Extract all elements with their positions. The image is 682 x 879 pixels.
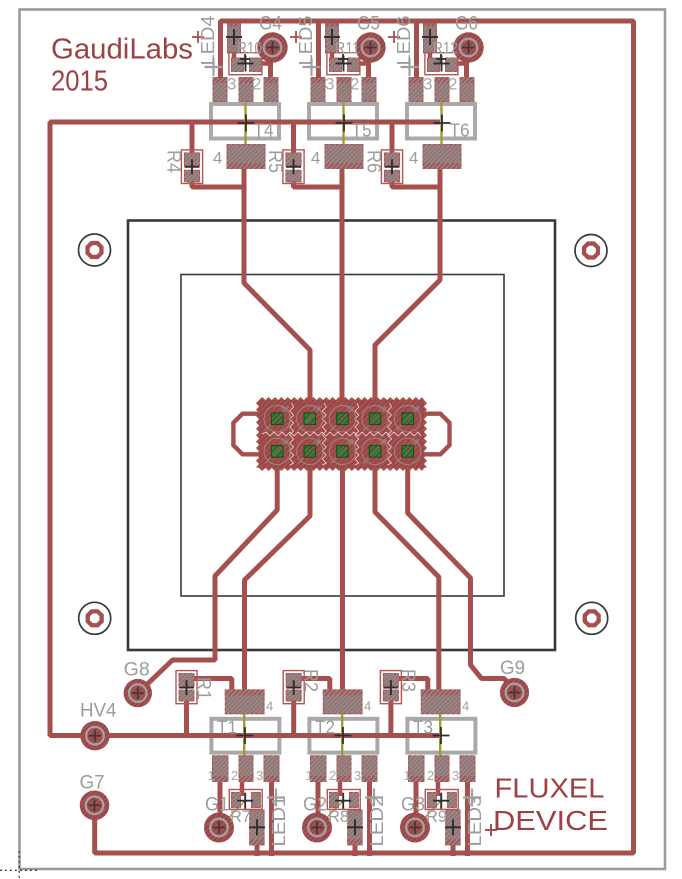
svg-text:T2: T2 <box>315 717 335 738</box>
svg-text:34: 34 <box>313 406 321 413</box>
svg-text:R7: R7 <box>230 807 251 826</box>
svg-text:4: 4 <box>462 699 469 714</box>
svg-text:R12: R12 <box>433 39 458 58</box>
svg-text:LED5: LED5 <box>296 16 316 66</box>
svg-text:3: 3 <box>256 768 263 783</box>
svg-text:GaudiLabs: GaudiLabs <box>51 34 193 66</box>
svg-text:G7: G7 <box>80 773 105 794</box>
svg-text:R11: R11 <box>335 39 360 58</box>
svg-text:34: 34 <box>378 406 386 413</box>
svg-text:G2: G2 <box>303 795 327 816</box>
svg-text:4: 4 <box>213 149 222 168</box>
svg-text:34: 34 <box>280 438 288 445</box>
svg-text:R4: R4 <box>163 150 184 173</box>
svg-text:HV4: HV4 <box>80 701 117 722</box>
svg-text:T5: T5 <box>352 120 372 141</box>
svg-text:T1: T1 <box>217 717 237 738</box>
svg-text:G6: G6 <box>455 14 478 35</box>
svg-text:R6: R6 <box>363 150 384 173</box>
svg-text:34: 34 <box>411 406 419 413</box>
svg-text:T3: T3 <box>413 717 433 738</box>
svg-text:R9: R9 <box>426 807 447 826</box>
svg-text:4: 4 <box>311 149 320 168</box>
svg-text:G4: G4 <box>259 14 282 35</box>
svg-text:2: 2 <box>427 768 434 783</box>
svg-text:G5: G5 <box>357 14 380 35</box>
svg-text:4: 4 <box>364 699 371 714</box>
svg-text:LED4: LED4 <box>198 16 218 66</box>
svg-text:LED2: LED2 <box>367 796 387 847</box>
svg-text:LED6: LED6 <box>394 16 414 66</box>
svg-text:R2: R2 <box>300 669 321 692</box>
svg-text:R1: R1 <box>193 677 214 700</box>
svg-text:G1: G1 <box>205 795 229 816</box>
svg-text:34: 34 <box>313 438 321 445</box>
svg-text:G8: G8 <box>124 660 150 681</box>
svg-text:T6: T6 <box>450 120 470 141</box>
svg-text:R5: R5 <box>264 150 285 173</box>
svg-text:4: 4 <box>266 699 273 714</box>
svg-text:R8: R8 <box>328 807 349 826</box>
svg-text:1: 1 <box>208 768 215 783</box>
svg-text:2: 2 <box>252 75 261 94</box>
svg-text:3: 3 <box>354 768 361 783</box>
svg-text:LED1: LED1 <box>269 796 289 847</box>
svg-text:3: 3 <box>423 75 432 94</box>
svg-text:2: 2 <box>350 75 359 94</box>
svg-text:3: 3 <box>325 75 334 94</box>
svg-text:2: 2 <box>329 768 336 783</box>
svg-text:G3: G3 <box>401 795 425 816</box>
svg-text:FLUXEL: FLUXEL <box>495 773 605 804</box>
svg-text:LED3: LED3 <box>465 796 485 847</box>
svg-text:4: 4 <box>409 149 418 168</box>
svg-text:34: 34 <box>411 438 419 445</box>
svg-text:34: 34 <box>378 438 386 445</box>
svg-text:R3: R3 <box>397 669 418 692</box>
svg-text:2015: 2015 <box>51 66 108 98</box>
svg-text:34: 34 <box>280 406 288 413</box>
svg-text:2: 2 <box>231 768 238 783</box>
svg-text:3: 3 <box>452 768 459 783</box>
svg-text:G9: G9 <box>500 658 525 679</box>
svg-text:34: 34 <box>345 406 353 413</box>
svg-text:1: 1 <box>306 768 313 783</box>
svg-text:DEVICE: DEVICE <box>493 805 608 836</box>
svg-text:3: 3 <box>227 75 236 94</box>
svg-text:R10: R10 <box>237 39 262 58</box>
svg-text:1: 1 <box>404 768 411 783</box>
svg-text:2: 2 <box>448 75 457 94</box>
svg-text:T4: T4 <box>254 120 274 141</box>
svg-text:34: 34 <box>345 438 353 445</box>
